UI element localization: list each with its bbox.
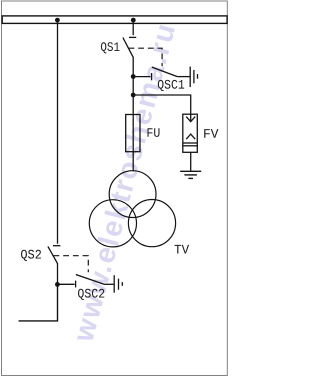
transformer TV [89, 171, 175, 247]
ground of QSC2 [104, 275, 122, 293]
grounding switch QSC2 [58, 275, 105, 288]
node: bus tap left [55, 18, 60, 23]
node A1 [131, 74, 136, 79]
label QSC2 [78, 289, 104, 300]
wire: QS2 to node B [57, 263, 59, 284]
node B [55, 282, 60, 287]
disconnector QS2 [48, 246, 61, 264]
wire: node A2 to FV [133, 95, 191, 114]
ground of QSC1 [177, 67, 197, 88]
wire: node A2 to FU [132, 95, 134, 115]
label QS1 [101, 42, 120, 53]
wire: bus to QS1 [132, 21, 134, 36]
interlock link QS1-QSC1 [129, 48, 163, 66]
wire: bus to QS2 [57, 21, 59, 244]
interlock link QS2-QSC2 [54, 256, 89, 273]
ground of FV [180, 171, 201, 178]
node: bus tap right [131, 18, 136, 23]
wire: QS1 to node A1 [132, 57, 134, 77]
arrester FV [183, 114, 198, 152]
label QSC1 [158, 80, 184, 91]
label FV [204, 129, 218, 138]
disconnector QS1 [123, 37, 136, 57]
wire: node B to outgoing stub [19, 284, 58, 321]
label TV [175, 245, 190, 254]
wire: FV to ground [190, 152, 192, 171]
label FU [148, 128, 160, 137]
label QS2 [21, 250, 41, 261]
wire: node A1 to node A2 [132, 77, 134, 96]
wire: FU to TV [132, 152, 134, 172]
fuse FU [126, 115, 140, 152]
busbar [2, 16, 227, 24]
grounding switch QSC1 [133, 67, 177, 80]
node A2 [131, 93, 136, 98]
